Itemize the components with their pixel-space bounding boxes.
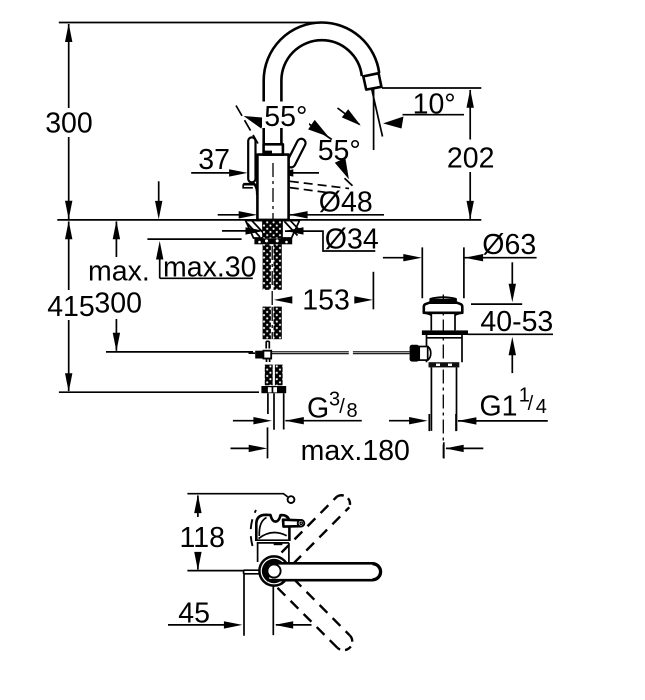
- handle cap inner arc: [373, 565, 380, 580]
- svg-text:55°: 55°: [264, 101, 307, 133]
- spout outer arc: [264, 23, 380, 145]
- rod fitting: [255, 351, 263, 359]
- 45 extension ticks: [244, 574, 273, 636]
- dimension G38: [233, 420, 254, 422]
- dimension 37 lines: [191, 172, 319, 174]
- lever up solid: [248, 137, 255, 182]
- svg-text:Ø63: Ø63: [482, 229, 536, 261]
- plan body dome: [256, 515, 289, 541]
- svg-text:Ø34: Ø34: [325, 224, 379, 256]
- plan body notch: [274, 543, 283, 545]
- dimension line max300: [115, 222, 117, 351]
- svg-text:37: 37: [198, 144, 230, 176]
- drain neck: [424, 313, 463, 331]
- spout inner arc: [281, 40, 361, 144]
- mounting nut: [261, 386, 286, 393]
- plan dome arc: [259, 532, 287, 538]
- drain o-ring: [422, 330, 468, 335]
- outlet 10deg line: [372, 90, 383, 137]
- handle lower-right dashed: [278, 566, 353, 651]
- d48 dim left line: [218, 214, 239, 216]
- deck line: [57, 219, 481, 221]
- rod knob: [410, 345, 420, 362]
- hose level reference line: [106, 351, 253, 353]
- faucet body: [257, 155, 288, 220]
- plan body sides: [258, 543, 289, 562]
- svg-text:/: /: [528, 393, 534, 415]
- handle up dashed arc: [251, 510, 256, 546]
- dimension 40-53: [511, 262, 513, 284]
- threaded shank segment 2: [263, 307, 282, 340]
- svg-text:G1: G1: [480, 390, 518, 422]
- svg-text:G: G: [307, 393, 329, 425]
- svg-text:153: 153: [302, 284, 350, 316]
- top reference line: [59, 22, 322, 24]
- shank through escutcheon: [263, 221, 282, 238]
- 118 top reference line: [187, 494, 287, 497]
- body cap: [264, 144, 283, 154]
- svg-text:10°: 10°: [413, 89, 456, 121]
- dimension d63: [383, 257, 404, 259]
- svg-text:max.: max.: [88, 256, 150, 288]
- drain washer: [429, 362, 460, 367]
- rod tab: [244, 570, 259, 574]
- cap notch: [264, 151, 273, 155]
- 10deg swing arc: [338, 108, 360, 125]
- dimension line 202: [469, 90, 471, 219]
- d34 leader and label: [285, 231, 375, 251]
- drain plug lid: [430, 297, 457, 299]
- svg-text:45: 45: [178, 598, 210, 630]
- handle solid: [268, 563, 381, 580]
- lever right solid: [285, 137, 307, 169]
- 202 top reference line: [382, 87, 481, 89]
- svg-text:40-53: 40-53: [480, 306, 553, 338]
- tick 55b: [345, 178, 353, 186]
- bottom reference line: [59, 391, 259, 393]
- rod pin: [266, 341, 269, 348]
- plan dome inner corner: [259, 518, 266, 537]
- supply hoses: [268, 393, 284, 430]
- threaded shank segment 1: [263, 244, 282, 289]
- svg-text:202: 202: [447, 142, 495, 174]
- deck underside line: [147, 238, 241, 240]
- lever up-left dashed axis: [236, 106, 258, 144]
- pop-up rod: [271, 352, 409, 354]
- drain tailpipe: [431, 367, 456, 431]
- dimension max180: [231, 447, 250, 449]
- dimension 153: [372, 272, 374, 310]
- dimension G114: [389, 420, 410, 422]
- lever down hook: [243, 184, 257, 195]
- svg-text:max.180: max.180: [301, 435, 410, 467]
- flange nut: [254, 238, 292, 244]
- white halo 55a: [262, 102, 309, 129]
- d48 dim right line: [289, 214, 384, 216]
- escutcheon left: [246, 221, 264, 239]
- handle upper-right dashed: [280, 495, 350, 577]
- tick 55 right: [306, 122, 332, 140]
- pivot outer circle: [259, 556, 288, 585]
- svg-text:118: 118: [180, 522, 225, 554]
- d34 dim arrows: [222, 230, 246, 232]
- drain flange: [424, 303, 463, 313]
- max30 up arrow stem: [159, 259, 161, 278]
- threaded shank segment 3: [265, 365, 283, 386]
- max30 down arrow stem: [158, 181, 160, 201]
- aerator: [363, 73, 381, 89]
- plan body joint lines: [257, 540, 289, 543]
- svg-text:4: 4: [536, 396, 547, 418]
- svg-text:/: /: [339, 396, 345, 418]
- plan outlet stub: [283, 520, 301, 527]
- svg-text:Ø48: Ø48: [319, 187, 373, 219]
- max30 underline: [160, 277, 253, 279]
- pivot inner circle: [267, 564, 280, 577]
- shank centre line gap: [271, 291, 273, 306]
- drain centre line: [442, 295, 444, 459]
- drain body: [427, 335, 463, 362]
- svg-text:8: 8: [347, 400, 358, 422]
- escutcheon right: [282, 221, 300, 239]
- dimension line 300: [68, 24, 70, 219]
- spout tip circle: [288, 496, 295, 503]
- dimension 45: [168, 624, 224, 626]
- outlet plumb line: [373, 90, 375, 151]
- d63 extension lines: [422, 247, 464, 298]
- svg-text:415: 415: [47, 291, 95, 323]
- 10deg leader line: [403, 114, 465, 116]
- svg-text:300: 300: [45, 108, 93, 140]
- dimension line 415: [68, 222, 70, 392]
- svg-text:300: 300: [94, 288, 142, 320]
- body centre line: [272, 163, 274, 225]
- pivot black ring: [262, 559, 286, 583]
- dimension line 118: [197, 496, 199, 570]
- 118 bottom reference line: [187, 570, 243, 572]
- lever down dashed lines: [290, 181, 349, 194]
